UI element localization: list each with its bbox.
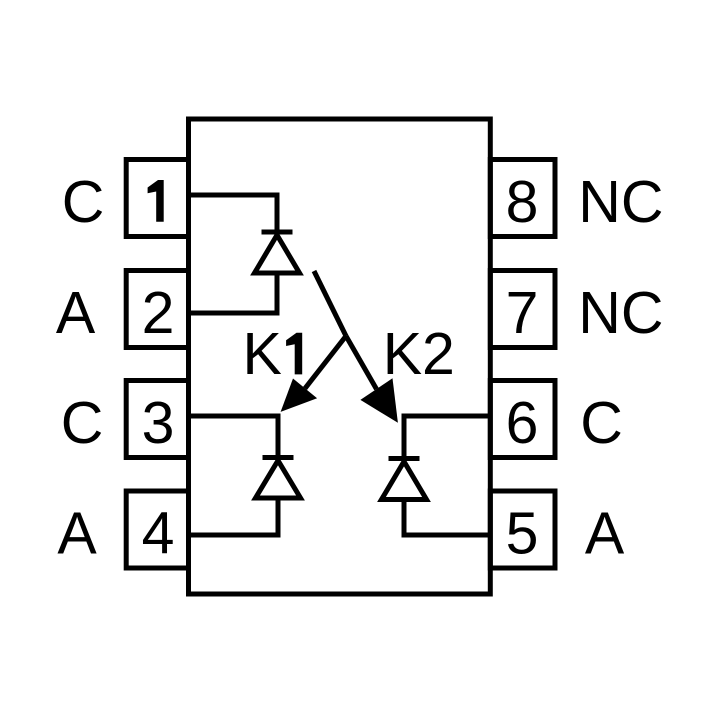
svg-text:C: C (62, 169, 105, 235)
wire pin6 to D3 cathode (404, 416, 490, 459)
wire pin1 to D1 cathode (189, 195, 278, 232)
arrowhead K2 (360, 378, 398, 423)
pin 4 box (126, 491, 188, 568)
diode D2 cathode bar (263, 455, 294, 460)
svg-text:5: 5 (506, 501, 539, 567)
wire D1 anode to pin2 (189, 273, 278, 313)
diode D3 cathode bar (389, 456, 420, 461)
pin 1 number (148, 180, 164, 222)
diode D1 triangle (255, 235, 300, 273)
pin 3 box (126, 381, 188, 458)
svg-text:K2: K2 (383, 321, 455, 387)
wire pin3 to D2 cathode (189, 416, 279, 458)
svg-text:K: K (243, 321, 282, 387)
svg-text:A: A (585, 501, 625, 567)
pin 1 box (126, 160, 188, 237)
wire D3 anode to pin5 (404, 500, 490, 536)
svg-text:NC: NC (578, 280, 663, 346)
svg-text:C: C (580, 390, 623, 456)
pointer line to K1 (305, 336, 346, 388)
pin 6 box (490, 381, 555, 458)
svg-text:6: 6 (506, 390, 539, 456)
svg-text:A: A (57, 501, 97, 567)
svg-text:2: 2 (142, 280, 175, 346)
pin 2 box (126, 271, 188, 348)
pointer stem from cathode node (314, 271, 346, 336)
pin 5 box (490, 491, 555, 568)
svg-text:8: 8 (506, 169, 539, 235)
arrowhead K1 (281, 379, 318, 412)
pointer line to K2 (346, 336, 377, 389)
diode D1 cathode bar (262, 230, 293, 235)
pin 7 box (490, 271, 555, 348)
IC package body U1 (189, 119, 491, 594)
svg-text:A: A (56, 280, 96, 346)
wire D2 anode to pin4 (189, 498, 279, 535)
pin 8 box (490, 160, 555, 237)
diode D3 triangle (382, 462, 427, 500)
diode D2 triangle (256, 461, 301, 499)
svg-text:NC: NC (578, 169, 663, 235)
svg-text:C: C (61, 390, 104, 456)
svg-text:7: 7 (506, 280, 539, 346)
svg-text:3: 3 (142, 390, 175, 456)
svg-text:4: 4 (142, 501, 175, 567)
